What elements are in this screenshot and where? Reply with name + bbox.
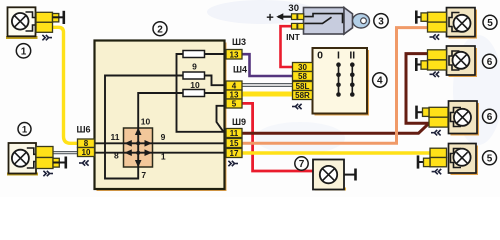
svg-text:8: 8	[114, 151, 119, 161]
svg-text:II: II	[349, 50, 355, 62]
svg-text:7: 7	[141, 170, 146, 180]
svg-text:4: 4	[377, 76, 383, 87]
svg-text:13: 13	[230, 51, 239, 60]
svg-text:1: 1	[22, 125, 28, 136]
svg-text:I: I	[337, 50, 340, 62]
svg-text:3: 3	[378, 17, 384, 28]
svg-text:8: 8	[84, 139, 89, 148]
svg-text:58L: 58L	[296, 82, 310, 91]
svg-text:9: 9	[192, 62, 197, 72]
svg-text:11: 11	[230, 129, 239, 138]
svg-text:5: 5	[487, 154, 493, 165]
svg-text:30: 30	[288, 3, 299, 14]
svg-text:Ш6: Ш6	[76, 125, 90, 135]
svg-text:Ш4: Ш4	[233, 65, 247, 75]
svg-text:13: 13	[230, 90, 239, 99]
svg-text:0: 0	[317, 50, 323, 62]
svg-text:15: 15	[230, 139, 239, 148]
svg-text:58R: 58R	[295, 91, 310, 100]
svg-text:5: 5	[232, 99, 237, 108]
svg-text:1: 1	[161, 152, 166, 162]
svg-text:6: 6	[487, 112, 493, 123]
svg-text:9: 9	[161, 132, 166, 142]
svg-text:+: +	[266, 10, 274, 25]
svg-text:30: 30	[298, 63, 307, 72]
svg-text:11: 11	[111, 132, 120, 142]
svg-text:5: 5	[487, 18, 493, 29]
svg-text:10: 10	[82, 148, 91, 157]
svg-text:1: 1	[21, 47, 27, 58]
svg-text:17: 17	[230, 149, 239, 158]
svg-text:4: 4	[232, 81, 237, 90]
svg-text:58: 58	[298, 72, 307, 81]
svg-text:Ш9: Ш9	[232, 117, 246, 127]
svg-text:Ш3: Ш3	[232, 37, 246, 47]
svg-text:7: 7	[299, 159, 305, 170]
svg-text:2: 2	[157, 24, 163, 35]
svg-text:INT: INT	[286, 32, 301, 42]
svg-text:10: 10	[141, 117, 151, 127]
svg-text:6: 6	[487, 57, 493, 68]
svg-text:10: 10	[190, 80, 200, 90]
